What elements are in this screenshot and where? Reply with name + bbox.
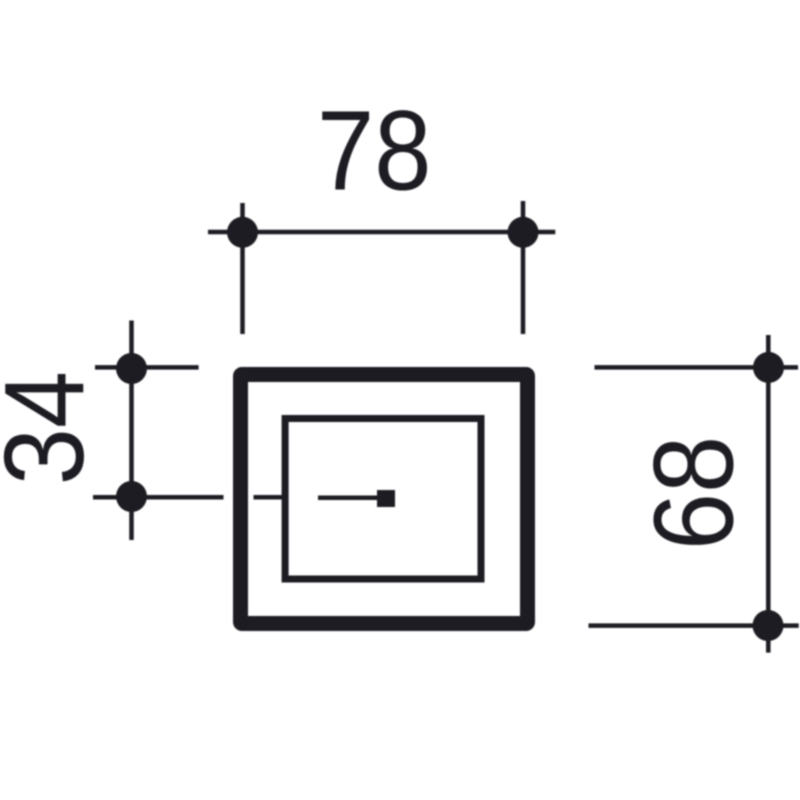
dimension label 78 (317, 87, 431, 214)
dimension line 34 (129, 321, 134, 541)
dimension dot 34 top (116, 353, 147, 384)
center line segment (254, 495, 285, 500)
center mark line (318, 496, 378, 501)
extension line bottom of 34 (93, 495, 224, 500)
dimension line 78 (208, 230, 555, 235)
extension line right of 78 (521, 201, 526, 334)
dimension line 68 (766, 335, 771, 653)
dimension label 68 (630, 436, 757, 550)
dimension dot 68 top (753, 352, 784, 383)
svg-text:68: 68 (630, 436, 757, 550)
dimension label 34 (0, 371, 107, 485)
svg-text:78: 78 (317, 87, 431, 214)
dimension dot 78 right (508, 217, 539, 248)
extension line bottom of 68 (589, 623, 799, 628)
outer frame of cover plate (241, 375, 528, 624)
extension line top of 34 (95, 365, 199, 370)
extension line left of 78 (240, 203, 245, 334)
svg-text:34: 34 (0, 371, 107, 485)
extension line top of 68 (595, 365, 799, 370)
dimension dot 68 bottom (753, 610, 784, 641)
center mark square (377, 490, 395, 507)
dimension dot 34 bottom (116, 481, 147, 512)
inner plate outline (285, 419, 481, 580)
dimension dot 78 left (227, 217, 258, 248)
